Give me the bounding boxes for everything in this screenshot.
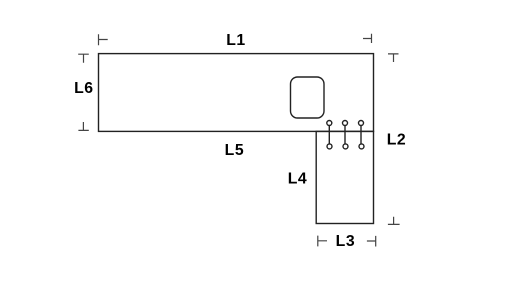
svg-text:L3: L3	[336, 233, 355, 250]
pin pair 3 wire	[360, 125, 362, 144]
pin pair 2 bottom hole	[343, 144, 348, 149]
svg-text:L2: L2	[387, 132, 406, 149]
dimension L2 top end mark	[388, 54, 399, 62]
svg-text:L6: L6	[74, 80, 93, 97]
pin pair 1 wire	[328, 125, 330, 144]
rounded cutout	[291, 77, 325, 118]
pin pair 1 bottom hole	[327, 144, 332, 149]
pin pair 3 bottom hole	[359, 144, 364, 149]
svg-text:L4: L4	[288, 171, 307, 188]
dimension L3 left end mark	[318, 236, 327, 247]
pin pair 3 top hole	[359, 121, 364, 126]
pin pair 2 wire	[344, 125, 346, 144]
dimension L1 right end mark	[363, 34, 372, 43]
dimension L1 left end mark	[99, 34, 108, 45]
dimension L6 bottom end mark	[78, 122, 88, 130]
part outline bottom leg	[316, 131, 373, 223]
svg-text:L5: L5	[225, 142, 244, 159]
pin pair 1 top hole	[327, 121, 332, 126]
dimension L3 right end mark	[367, 236, 376, 247]
pin pair 2 top hole	[343, 121, 348, 126]
dimension L6 top end mark	[78, 54, 89, 63]
part outline main rectangle	[99, 54, 374, 132]
dimension L2 bottom end mark	[388, 217, 400, 225]
svg-text:L1: L1	[226, 32, 245, 49]
